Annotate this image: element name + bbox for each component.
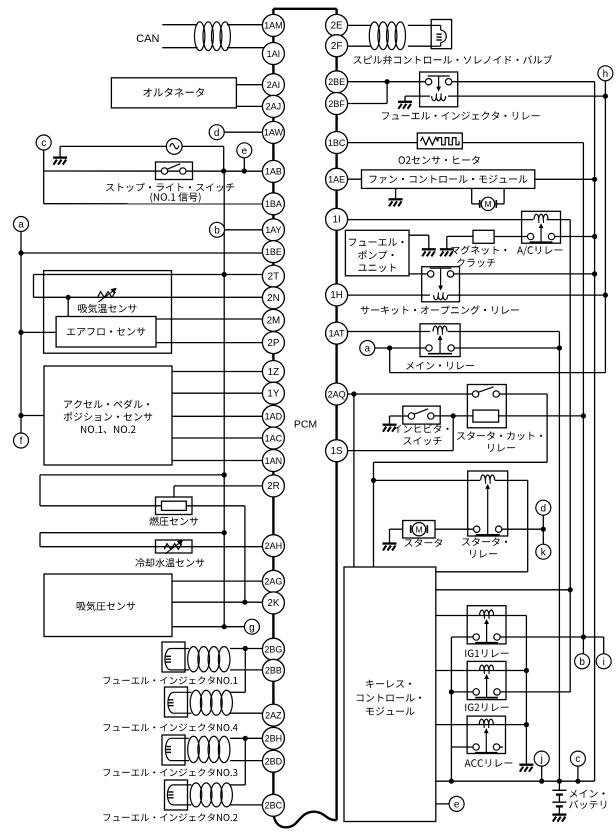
svg-text:2BB: 2BB <box>265 666 282 676</box>
svg-text:i: i <box>603 657 605 668</box>
svg-text:b: b <box>579 657 585 668</box>
svg-text:1Y: 1Y <box>267 389 279 400</box>
svg-text:1AI: 1AI <box>267 49 281 59</box>
svg-text:1H: 1H <box>330 290 343 301</box>
svg-text:a: a <box>18 220 24 231</box>
svg-text:1BC: 1BC <box>328 138 346 148</box>
svg-text:f: f <box>20 436 23 447</box>
svg-text:2F: 2F <box>331 41 342 52</box>
svg-text:1AD: 1AD <box>265 412 283 422</box>
svg-text:2T: 2T <box>268 271 279 282</box>
svg-text:2AH: 2AH <box>265 541 283 551</box>
svg-text:1BE: 1BE <box>265 247 282 257</box>
svg-text:1AB: 1AB <box>265 167 282 177</box>
svg-text:2R: 2R <box>267 481 280 492</box>
svg-text:1AY: 1AY <box>265 225 281 235</box>
svg-text:PCM: PCM <box>294 419 317 431</box>
svg-text:h: h <box>603 69 609 80</box>
svg-text:j: j <box>540 754 543 765</box>
svg-text:2P: 2P <box>267 338 279 349</box>
svg-text:e: e <box>242 146 248 157</box>
svg-text:1AW: 1AW <box>264 128 284 138</box>
svg-text:d: d <box>214 128 220 139</box>
svg-text:e: e <box>454 800 460 811</box>
svg-text:c: c <box>575 754 580 765</box>
svg-text:1AM: 1AM <box>264 21 283 31</box>
svg-text:1I: 1I <box>333 215 341 226</box>
svg-text:M: M <box>415 524 422 534</box>
svg-text:2BE: 2BE <box>328 77 345 87</box>
svg-text:2AG: 2AG <box>264 577 282 587</box>
svg-text:1S: 1S <box>331 446 343 457</box>
svg-text:g: g <box>249 622 255 633</box>
svg-text:2E: 2E <box>331 21 343 32</box>
svg-text:2BG: 2BG <box>264 645 282 655</box>
svg-text:2AZ: 2AZ <box>265 710 282 720</box>
svg-text:a: a <box>365 344 371 355</box>
svg-text:2BF: 2BF <box>328 99 345 109</box>
svg-text:1Z: 1Z <box>268 367 279 378</box>
svg-text:2BH: 2BH <box>265 734 283 744</box>
svg-text:M: M <box>484 199 491 209</box>
svg-text:1AN: 1AN <box>265 456 283 466</box>
svg-text:2AI: 2AI <box>267 80 281 90</box>
svg-text:2BD: 2BD <box>265 757 283 767</box>
svg-text:CAN: CAN <box>136 33 159 45</box>
svg-text:b: b <box>214 225 220 236</box>
svg-text:d: d <box>541 503 547 514</box>
svg-text:2BC: 2BC <box>265 801 283 811</box>
svg-text:2N: 2N <box>267 293 280 304</box>
svg-text:2AQ: 2AQ <box>328 389 346 399</box>
svg-text:2M: 2M <box>267 316 281 327</box>
svg-text:1BA: 1BA <box>265 199 282 209</box>
svg-text:1AC: 1AC <box>265 433 283 443</box>
svg-text:2AJ: 2AJ <box>266 102 282 112</box>
svg-text:1AT: 1AT <box>329 328 345 338</box>
svg-text:2K: 2K <box>267 598 279 609</box>
svg-text:c: c <box>41 138 46 149</box>
svg-text:1AE: 1AE <box>328 175 345 185</box>
